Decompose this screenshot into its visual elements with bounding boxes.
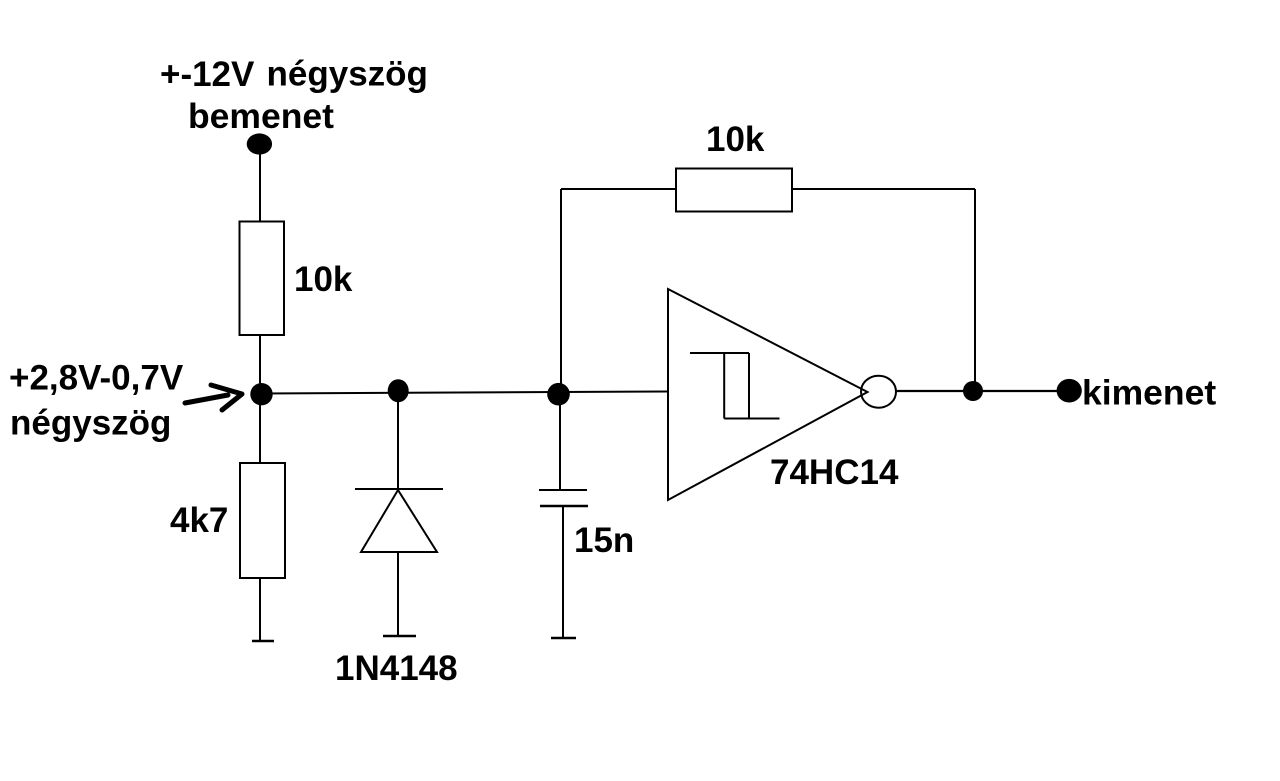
hysteresis symbol inside U1 (690, 353, 780, 419)
wire R2 to ground (259, 578, 261, 641)
output node junction dot (963, 381, 983, 401)
wire node B to diode D1 (397, 392, 399, 489)
svg-text:4k7: 4k7 (170, 501, 228, 540)
annotation arrow pointing to node A (185, 385, 242, 410)
input terminal node dot (247, 133, 272, 154)
node B junction dot (388, 379, 409, 402)
svg-text:+2,8V-0,7V: +2,8V-0,7V (9, 359, 184, 398)
wire C1 to ground (562, 506, 564, 638)
svg-text:10k: 10k (706, 120, 765, 159)
U1 output inversion bubble (861, 376, 896, 408)
svg-text:+-12V: +-12V (160, 55, 255, 94)
svg-text:négyszög: négyszög (10, 404, 171, 443)
resistor R1 body (240, 222, 285, 336)
svg-text:1N4148: 1N4148 (335, 649, 458, 688)
output terminal dot (1057, 379, 1082, 403)
main horizontal rail wire node A to inverter input (261, 392, 668, 394)
feedback wire left vertical (560, 189, 562, 393)
node A junction dot (250, 383, 272, 405)
ground tick below D1 (383, 635, 416, 638)
ground tick below C1 (551, 637, 576, 640)
diode D1 cathode bar (355, 488, 443, 490)
svg-text:10k: 10k (294, 260, 353, 299)
wire R1 to node A (259, 335, 261, 394)
output wire bubble to terminal (896, 390, 1070, 392)
capacitor C1 bottom plate (540, 505, 588, 508)
svg-text:bemenet: bemenet (188, 96, 334, 136)
feedback wire top right horizontal (792, 188, 975, 190)
Schmitt inverter U1 triangle (668, 289, 868, 500)
resistor R2 body 4k7 (240, 463, 285, 578)
wire node A to R2 (259, 394, 261, 463)
diode D1 triangle (361, 490, 437, 552)
svg-text:74HC14: 74HC14 (770, 453, 899, 492)
wire node C to capacitor C1 (559, 393, 561, 490)
node C junction dot (547, 383, 570, 406)
ground tick below R2 (252, 640, 274, 643)
svg-text:15n: 15n (574, 521, 634, 560)
feedback wire right vertical (974, 189, 976, 391)
capacitor C1 top plate (539, 489, 587, 491)
resistor R3 body feedback 10k (676, 169, 792, 212)
svg-text:kimenet: kimenet (1082, 373, 1216, 413)
svg-text:négyszög: négyszög (267, 55, 428, 94)
wire input node to R1 (259, 145, 261, 222)
feedback wire top left horizontal (561, 188, 676, 190)
wire D1 anode to ground (397, 552, 399, 636)
